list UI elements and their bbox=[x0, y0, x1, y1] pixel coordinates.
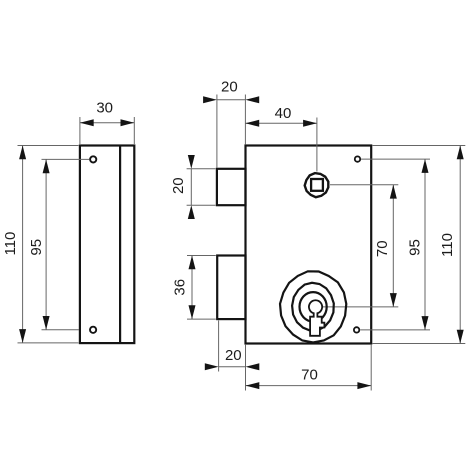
dimension 20 left extension lines bbox=[187, 169, 216, 205]
dimension 110 right extension lines bbox=[373, 146, 466, 344]
dimension 20 top line and arrows bbox=[203, 96, 259, 103]
keyhole bbox=[309, 300, 324, 336]
svg-text:95: 95 bbox=[406, 239, 423, 256]
front view body bbox=[246, 146, 372, 344]
cylinder extension line right bbox=[322, 306, 398, 308]
dimension 95 left line and arrows bbox=[43, 159, 50, 329]
dimension 70 right line and arrows bbox=[390, 185, 397, 307]
cylinder outer scalloped ring bbox=[280, 271, 346, 342]
front view bottom screw hole bbox=[354, 327, 359, 332]
dimension 20 bottom extension lines bbox=[219, 321, 246, 391]
svg-text:36: 36 bbox=[171, 279, 188, 296]
dimension 70 bottom line and arrows bbox=[246, 382, 372, 389]
front view deadbolt bbox=[217, 256, 245, 320]
dimension 95 right line and arrows bbox=[422, 159, 429, 330]
front view top screw hole bbox=[355, 156, 360, 161]
side view body bbox=[80, 146, 134, 344]
dimension 110 right line and arrows bbox=[457, 146, 464, 344]
square follower outer ring bbox=[305, 173, 329, 197]
dimension 20 left line and arrows bbox=[188, 155, 195, 219]
cylinder middle ring bbox=[292, 283, 334, 331]
svg-text:20: 20 bbox=[170, 177, 187, 194]
dimension 40 extension line bbox=[316, 118, 318, 172]
svg-text:30: 30 bbox=[96, 99, 113, 116]
dimension 20 top extension lines bbox=[217, 95, 246, 168]
svg-text:110: 110 bbox=[2, 232, 19, 256]
side view bottom screw hole bbox=[90, 327, 96, 333]
svg-text:40: 40 bbox=[275, 105, 292, 122]
square follower square hole bbox=[311, 179, 323, 191]
dimension 30 extension lines bbox=[80, 117, 134, 144]
dimension 110 left line and arrows bbox=[19, 146, 26, 343]
side view top screw hole bbox=[90, 156, 96, 162]
svg-text:70: 70 bbox=[301, 366, 318, 383]
svg-text:20: 20 bbox=[225, 347, 242, 364]
cylinder inner ring bbox=[300, 292, 327, 321]
dimension 30 line and arrows bbox=[80, 119, 134, 126]
dimension 70 right extension bbox=[0, 0, 1, 1]
svg-text:70: 70 bbox=[374, 240, 391, 257]
dimension 36 line and arrows bbox=[189, 256, 196, 320]
svg-text:110: 110 bbox=[439, 233, 456, 257]
front view top latch bbox=[217, 169, 246, 205]
dimension 95 right extension lines bbox=[360, 159, 430, 330]
side view divider line bbox=[119, 146, 121, 344]
dimension 95 left extension lines bbox=[42, 159, 90, 329]
dimension 40 line and arrows bbox=[245, 120, 317, 127]
dimension 110 left extension lines bbox=[18, 146, 79, 343]
dimension 36 extension lines bbox=[187, 256, 216, 320]
svg-text:95: 95 bbox=[28, 239, 45, 256]
svg-text:20: 20 bbox=[221, 78, 238, 95]
dimension 20 bottom line and arrows bbox=[205, 363, 259, 370]
dimension 70 bottom extension line bbox=[370, 345, 372, 391]
square follower extension line right bbox=[330, 184, 398, 186]
